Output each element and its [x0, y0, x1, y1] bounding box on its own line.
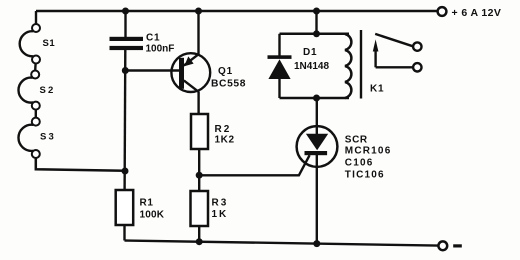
wire S1-S2 link: [34, 64, 37, 71]
svg-text:SCR: SCR: [345, 135, 368, 146]
terminal - supply: [438, 241, 447, 250]
junction SCR cathode / bottom rail: [313, 240, 320, 247]
wire SCR anode lead: [316, 98, 318, 134]
wire Q1 emitter lead: [197, 11, 199, 55]
svg-text:100K: 100K: [140, 210, 165, 221]
relay contact K1: [373, 34, 422, 72]
wire base of Q1: [125, 69, 179, 71]
svg-text:MCR106: MCR106: [345, 146, 392, 157]
svg-text:S2: S2: [40, 85, 56, 96]
SCR MCR106: [297, 126, 338, 167]
wire C1 bottom / left node line: [123, 50, 126, 191]
svg-text:R3: R3: [212, 198, 229, 209]
svg-text:S3: S3: [40, 132, 56, 143]
junction loop top: [313, 30, 320, 37]
junction top rail / Q1 emitter: [195, 8, 202, 15]
wire C1 top lead: [124, 11, 126, 38]
junction S3 wire / R1 node: [122, 168, 129, 175]
wire R1 bottom lead: [123, 225, 125, 241]
relay core line: [360, 30, 362, 99]
wire R3 bottom lead: [198, 226, 200, 242]
wire relay branch from top rail: [315, 11, 317, 34]
svg-text:R2: R2: [215, 124, 232, 135]
junction loop bottom: [313, 95, 320, 102]
wire D1 top lead: [278, 34, 280, 56]
label minus: [453, 244, 462, 247]
svg-text:S1: S1: [43, 38, 56, 49]
wire relay loop bottom: [280, 97, 350, 100]
junction R3 / bottom rail: [196, 238, 203, 245]
svg-text:1K: 1K: [212, 209, 229, 220]
switch S2: [18, 71, 39, 110]
junction top rail / C1 node: [122, 8, 129, 15]
svg-text:100nF: 100nF: [146, 44, 175, 55]
svg-text:C106: C106: [345, 158, 374, 169]
wire relay loop top: [280, 33, 350, 36]
wire Q1 collector lead: [197, 92, 199, 115]
svg-text:Q1: Q1: [218, 66, 233, 77]
junction top rail / relay branch: [313, 8, 320, 15]
switch S3: [18, 118, 39, 158]
svg-text:+ 6 A 12V: + 6 A 12V: [452, 7, 502, 19]
wire SCR cathode lead: [316, 155, 318, 244]
diode D1: [268, 55, 292, 98]
junction gate node: [196, 172, 203, 179]
svg-text:D1: D1: [303, 47, 317, 58]
svg-text:K1: K1: [370, 84, 384, 95]
svg-text:BC558: BC558: [211, 79, 246, 90]
wire top positive rail: [36, 10, 438, 12]
resistor R2: [191, 114, 208, 149]
wire S1 top lead: [35, 11, 37, 24]
transistor Q1: [171, 53, 210, 92]
terminal + supply: [438, 7, 447, 16]
wire bottom negative rail: [125, 241, 439, 246]
wire S3 bottom to R1 node: [36, 158, 125, 171]
wire SCR gate: [199, 155, 309, 175]
svg-text:C1: C1: [146, 33, 160, 44]
resistor R3: [191, 191, 209, 226]
junction base node: [122, 67, 129, 74]
svg-text:R1: R1: [140, 198, 154, 209]
switch S1: [20, 24, 40, 64]
wire S2-S3 link: [35, 110, 37, 118]
wire R2 to R3: [198, 149, 200, 191]
resistor R1: [116, 190, 134, 225]
relay coil K1: [345, 34, 351, 98]
svg-text:TIC106: TIC106: [345, 170, 385, 181]
svg-text:1K2: 1K2: [215, 135, 235, 146]
capacitor C1: [110, 37, 144, 50]
svg-text:1N4148: 1N4148: [294, 61, 329, 72]
